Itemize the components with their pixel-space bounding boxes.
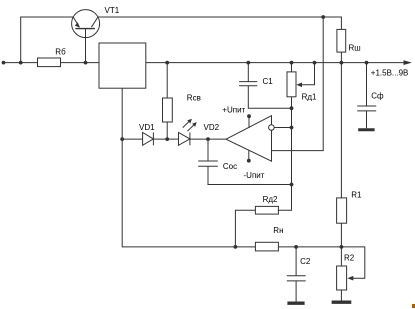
svg-text:Rд1: Rд1 bbox=[302, 92, 317, 101]
junction: Rд2 left on feedback rail bbox=[234, 245, 238, 249]
wire: diode chain bbox=[122, 138, 226, 140]
svg-text:+Uпит: +Uпит bbox=[222, 106, 245, 115]
pin: -supply stub bbox=[248, 150, 250, 161]
junction: left vertical riser on input wire bbox=[19, 61, 23, 65]
resistor Rсв bbox=[166, 63, 168, 98]
diode VD1 bbox=[143, 132, 154, 145]
junction: Rсв bottom on diode wire bbox=[165, 137, 169, 141]
capacitor Сос bbox=[198, 139, 291, 184]
junction: C1/Rд1 bottom node bbox=[290, 106, 294, 110]
junction: VD2 cathode / Сос bbox=[206, 137, 210, 141]
svg-text:R2: R2 bbox=[344, 254, 355, 263]
svg-text:Rн: Rн bbox=[273, 226, 283, 235]
ground: under R2 bbox=[332, 301, 352, 304]
ground: under C2 bbox=[287, 302, 304, 305]
wire: top rail (VT1 collector to Rш) bbox=[98, 17, 342, 29]
box U1 (converter block) bbox=[99, 43, 146, 88]
resistor R1 bbox=[337, 63, 347, 247]
resistor Rд2 bbox=[235, 185, 291, 247]
junction: Сф on supply rail bbox=[365, 61, 369, 65]
junction: top rail / comparator input riser bbox=[321, 15, 325, 19]
junction: R1/R2/feedback rail bbox=[340, 245, 344, 249]
junction: C2 on feedback rail bbox=[294, 245, 298, 249]
wire: comparator lower input to top rail bbox=[272, 17, 324, 151]
resistor Rш bbox=[337, 29, 346, 52]
svg-text:VD1: VD1 bbox=[139, 123, 155, 132]
svg-text:VT1: VT1 bbox=[105, 6, 120, 15]
pin: +supply stub bbox=[248, 116, 250, 128]
capacitor C1 bbox=[239, 61, 291, 109]
junction: output on bus bbox=[290, 126, 294, 130]
junction: Rсв top on supply rail bbox=[165, 61, 169, 65]
svg-text:R1: R1 bbox=[351, 191, 362, 200]
svg-text:Rд2: Rд2 bbox=[263, 195, 278, 204]
node: left input terminal bbox=[2, 61, 6, 65]
junction: Rш / R1 on supply rail bbox=[340, 61, 344, 65]
LED VD2 bbox=[179, 119, 197, 146]
svg-text:VD2: VD2 bbox=[204, 123, 220, 132]
svg-text:C1: C1 bbox=[263, 77, 274, 86]
capacitor Сф bbox=[357, 63, 376, 129]
junction: base / Rб wire bbox=[84, 61, 88, 65]
op-amp U1 comparator triangle bbox=[226, 116, 274, 162]
resistor Rн bbox=[255, 242, 278, 251]
ground: under Сф bbox=[358, 128, 374, 131]
wire: box bottom lead down to feedback rail bbox=[122, 88, 341, 247]
transistor VT1 bbox=[72, 10, 100, 38]
junction: box lead / diode wire bbox=[120, 137, 124, 141]
wire: Rб to box bbox=[61, 62, 100, 64]
wire: op-amp output to bus bbox=[274, 127, 291, 129]
wire: Rд1 wiper from supply rail bbox=[296, 61, 316, 87]
wire: Rш bottom lead bbox=[340, 52, 342, 63]
potentiometer R2 bbox=[337, 247, 365, 301]
svg-text:Сос: Сос bbox=[223, 162, 237, 171]
svg-text:+1.5В...9В: +1.5В...9В bbox=[371, 68, 409, 77]
wire: riser up from input wire to VT1 emitter bbox=[21, 17, 73, 63]
potentiometer Rд1 bbox=[287, 61, 296, 109]
wire: left terminal to Rб bbox=[4, 62, 38, 64]
svg-text:C2: C2 bbox=[300, 257, 311, 266]
junction: Сос on output bus bbox=[290, 183, 294, 187]
svg-text:Rб: Rб bbox=[55, 47, 66, 56]
marker: orange corner pixel bbox=[412, 304, 415, 308]
wire: VT1 base lead down bbox=[85, 29, 87, 63]
svg-text:-Uпит: -Uпит bbox=[244, 171, 265, 180]
wire: supply rail (box output to arrow) bbox=[146, 62, 409, 64]
resistor Rб bbox=[38, 58, 61, 67]
svg-text:Rсв: Rсв bbox=[187, 94, 201, 103]
arrow: supply rail output bbox=[404, 60, 412, 65]
wire: output bus (Rд1 bottom to Rд2) bbox=[291, 108, 293, 210]
svg-text:Сф: Сф bbox=[371, 91, 384, 100]
svg-text:Rш: Rш bbox=[349, 44, 361, 53]
capacitor C2 bbox=[287, 247, 306, 302]
